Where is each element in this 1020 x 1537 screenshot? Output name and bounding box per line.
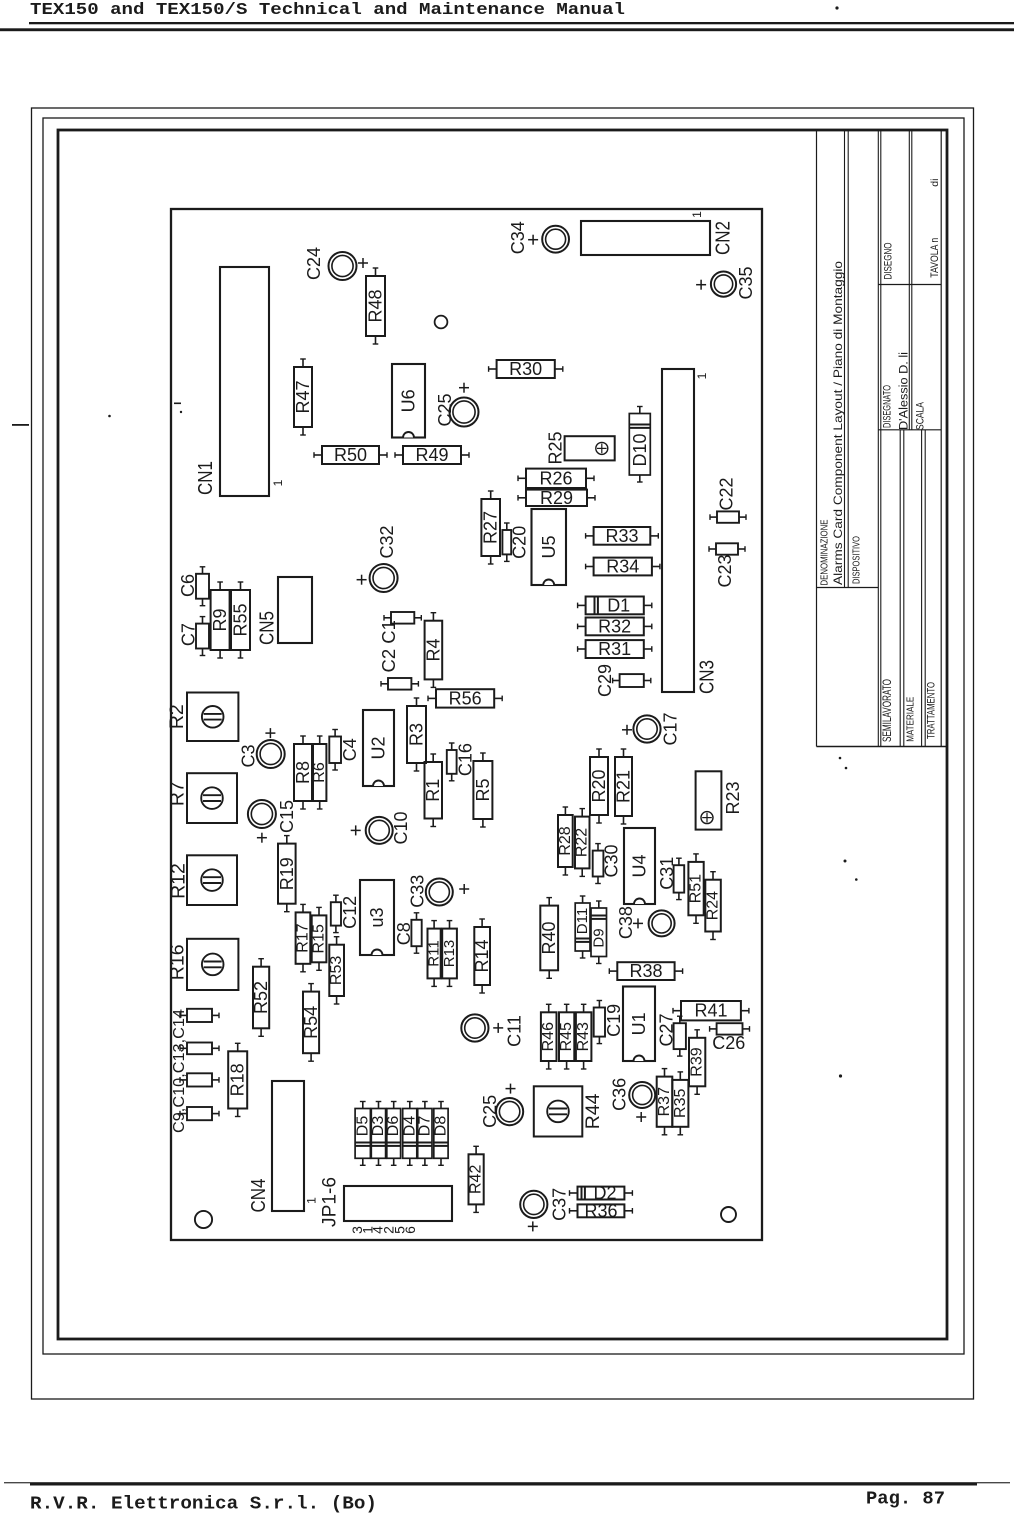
- svg-text:CN2: CN2: [713, 221, 735, 255]
- svg-text:R48: R48: [366, 289, 386, 322]
- svg-text:CN3: CN3: [697, 660, 719, 694]
- svg-text:C12: C12: [340, 896, 360, 929]
- svg-text:R43: R43: [575, 1022, 592, 1051]
- svg-text:R36: R36: [584, 1201, 617, 1221]
- svg-text:R6: R6: [311, 762, 328, 783]
- svg-text:DISEGNO: DISEGNO: [882, 242, 894, 279]
- svg-text:R37: R37: [656, 1087, 673, 1116]
- svg-text:DISEGNATO: DISEGNATO: [882, 385, 894, 428]
- svg-text:1: 1: [690, 211, 704, 218]
- svg-text:R7: R7: [167, 781, 189, 806]
- svg-text:C25: C25: [435, 393, 455, 426]
- svg-text:R44: R44: [582, 1093, 604, 1129]
- svg-text:C10: C10: [391, 811, 411, 844]
- svg-text:R32: R32: [598, 616, 631, 636]
- svg-text:R50: R50: [334, 445, 367, 465]
- svg-text:R42: R42: [468, 1165, 485, 1194]
- svg-text:C16: C16: [456, 743, 476, 776]
- svg-text:DISPOSITIVO: DISPOSITIVO: [852, 536, 863, 584]
- svg-text:D5: D5: [354, 1116, 371, 1137]
- svg-text:D11: D11: [574, 908, 591, 934]
- svg-text:C20: C20: [509, 526, 529, 559]
- svg-text:R3: R3: [407, 723, 427, 746]
- svg-text:C15: C15: [277, 800, 297, 833]
- svg-text:C33: C33: [407, 875, 427, 908]
- svg-text:CN1: CN1: [195, 461, 217, 495]
- svg-text:R51: R51: [688, 874, 705, 903]
- svg-text:R9: R9: [210, 608, 230, 631]
- svg-text:R1: R1: [423, 779, 443, 802]
- svg-text:C30: C30: [602, 844, 622, 877]
- svg-text:U4: U4: [630, 854, 650, 877]
- svg-text:D2: D2: [593, 1183, 616, 1203]
- svg-text:D10: D10: [630, 433, 650, 466]
- svg-text:MATERIALE: MATERIALE: [905, 697, 917, 742]
- svg-text:R52: R52: [251, 981, 271, 1014]
- svg-text:TEX150 and TEX150/S Technical: TEX150 and TEX150/S Technical and Mainte…: [30, 1, 625, 20]
- svg-text:R47: R47: [293, 380, 313, 413]
- svg-text:R8: R8: [293, 761, 313, 784]
- svg-text:C37: C37: [550, 1188, 570, 1221]
- svg-text:C17: C17: [661, 712, 681, 745]
- svg-text:U6: U6: [399, 389, 419, 412]
- svg-text:C27: C27: [657, 1013, 677, 1046]
- svg-text:R54: R54: [301, 1006, 321, 1039]
- svg-text:u3: u3: [367, 907, 387, 927]
- svg-text:R14: R14: [472, 939, 492, 972]
- svg-text:D6: D6: [385, 1116, 402, 1137]
- svg-text:R45: R45: [558, 1022, 575, 1051]
- svg-text:DENOMINAZIONE: DENOMINAZIONE: [819, 519, 830, 585]
- svg-text:C35: C35: [736, 266, 756, 299]
- svg-text:1: 1: [695, 372, 709, 379]
- svg-text:D'Alessio D. li: D'Alessio D. li: [898, 352, 910, 430]
- svg-text:R2: R2: [166, 704, 188, 729]
- svg-text:C8: C8: [394, 922, 414, 945]
- svg-text:R18: R18: [228, 1063, 248, 1096]
- svg-text:R16: R16: [167, 944, 189, 980]
- svg-text:C31: C31: [657, 857, 677, 890]
- svg-text:R26: R26: [539, 468, 572, 488]
- svg-text:R30: R30: [509, 359, 542, 379]
- svg-text:R13: R13: [441, 940, 458, 968]
- svg-text:R35: R35: [672, 1089, 689, 1118]
- svg-text:R.V.R. Elettronica S.r.l. (Bo): R.V.R. Elettronica S.r.l. (Bo): [30, 1494, 377, 1514]
- svg-text:C38: C38: [616, 906, 636, 939]
- svg-text:R29: R29: [540, 488, 573, 508]
- svg-text:C32: C32: [377, 525, 397, 558]
- svg-text:R38: R38: [629, 961, 662, 981]
- svg-text:SCALA: SCALA: [915, 401, 927, 430]
- svg-text:TRATTAMENTO: TRATTAMENTO: [925, 682, 937, 739]
- svg-text:R24: R24: [705, 891, 722, 920]
- svg-text:R53: R53: [328, 956, 345, 985]
- svg-text:C6: C6: [178, 574, 198, 597]
- svg-text:R56: R56: [449, 688, 482, 708]
- svg-text:1: 1: [271, 479, 285, 486]
- svg-text:C4: C4: [340, 738, 360, 761]
- svg-text:U1: U1: [629, 1012, 649, 1035]
- svg-text:di: di: [929, 179, 941, 187]
- svg-text:R40: R40: [539, 921, 559, 954]
- svg-text:R19: R19: [277, 857, 297, 890]
- svg-text:C7: C7: [179, 623, 199, 646]
- svg-text:R12: R12: [167, 863, 189, 899]
- svg-text:C36: C36: [610, 1078, 630, 1111]
- svg-text:R25: R25: [546, 431, 566, 464]
- svg-text:R34: R34: [606, 557, 639, 577]
- svg-text:C19: C19: [604, 1004, 624, 1037]
- svg-text:C23: C23: [715, 554, 735, 587]
- svg-text:C22: C22: [716, 477, 736, 510]
- svg-text:R33: R33: [605, 526, 638, 546]
- svg-text:R55: R55: [231, 603, 251, 636]
- svg-text:R27: R27: [481, 511, 501, 544]
- svg-text:R21: R21: [614, 770, 634, 803]
- svg-text:C3: C3: [239, 744, 259, 767]
- svg-text:C29: C29: [595, 664, 615, 697]
- svg-text:C25: C25: [480, 1095, 500, 1128]
- svg-text:R23: R23: [723, 781, 743, 814]
- svg-text:1: 1: [305, 1197, 319, 1204]
- svg-text:CN5: CN5: [257, 611, 279, 645]
- svg-text:C2 C1: C2 C1: [378, 620, 399, 672]
- svg-text:R28: R28: [557, 826, 574, 855]
- svg-text:R41: R41: [694, 1001, 727, 1021]
- svg-text:R4: R4: [423, 638, 443, 661]
- svg-text:C26: C26: [712, 1033, 745, 1053]
- svg-text:U5: U5: [539, 535, 559, 558]
- svg-text:C11: C11: [504, 1015, 524, 1047]
- svg-text:JP1-6: JP1-6: [320, 1177, 341, 1227]
- svg-text:C24: C24: [304, 247, 324, 280]
- svg-text:CN4: CN4: [248, 1179, 270, 1213]
- svg-text:U2: U2: [369, 736, 389, 759]
- svg-text:R31: R31: [598, 639, 631, 659]
- svg-text:Alarms Card Component Layout /: Alarms Card Component Layout / Piano di …: [831, 261, 845, 585]
- svg-text:R39: R39: [689, 1047, 706, 1076]
- svg-text:R17: R17: [295, 923, 312, 952]
- svg-text:R46: R46: [540, 1022, 557, 1051]
- svg-text:R49: R49: [415, 445, 448, 465]
- svg-text:D8: D8: [433, 1116, 450, 1137]
- svg-text:R20: R20: [589, 769, 609, 802]
- svg-text:R15: R15: [311, 924, 328, 953]
- svg-text:SEMILAVORATO: SEMILAVORATO: [882, 679, 894, 742]
- svg-text:R5: R5: [473, 778, 493, 801]
- svg-text:C9,C10,C13,C14: C9,C10,C13,C14: [171, 1009, 188, 1133]
- svg-text:6: 6: [402, 1226, 418, 1234]
- svg-text:D7: D7: [416, 1116, 433, 1137]
- svg-text:R22: R22: [574, 828, 591, 857]
- svg-text:C34: C34: [508, 221, 528, 254]
- svg-text:D1: D1: [607, 595, 630, 615]
- svg-text:Pag. 87: Pag. 87: [866, 1490, 945, 1510]
- svg-text:TAVOLA n: TAVOLA n: [929, 238, 941, 278]
- svg-text:D9: D9: [590, 928, 607, 947]
